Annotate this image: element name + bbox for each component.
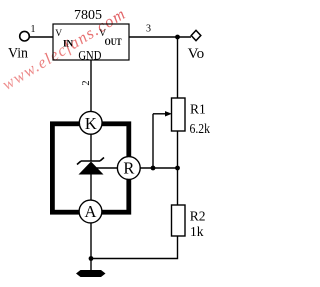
regulator U1 7805 box	[53, 24, 129, 60]
svg-text:6.2k: 6.2k	[190, 121, 211, 136]
svg-text:Vin: Vin	[8, 46, 29, 62]
svg-text:3: 3	[146, 24, 151, 35]
wire output node down to R1	[177, 37, 179, 98]
input terminal circle	[20, 31, 30, 41]
wire GND pin 2	[90, 60, 92, 113]
wire wiper arrow	[153, 113, 166, 115]
wire input terminal to regulator	[29, 36, 53, 38]
TL431 thick box	[52, 124, 128, 212]
svg-text:2: 2	[81, 81, 92, 86]
svg-text:R: R	[123, 158, 134, 177]
wire reference pin to R circle	[91, 167, 118, 169]
resistor R1	[172, 98, 186, 131]
node ground junction	[89, 256, 94, 261]
wire A to ground node	[90, 222, 92, 270]
svg-text:OUT: OUT	[105, 38, 123, 48]
svg-text:K: K	[85, 114, 97, 133]
output terminal diamond	[191, 30, 201, 40]
wire R2 bottom to ground rail	[91, 236, 178, 259]
terminal A circle	[79, 200, 102, 223]
node output junction	[175, 35, 180, 40]
svg-text:GND: GND	[78, 48, 101, 62]
svg-text:A: A	[85, 202, 97, 221]
wire regulator output to Vo terminal	[129, 36, 191, 38]
wire R node horizontal	[139, 167, 178, 169]
wire node to R2 top	[177, 168, 179, 205]
node R1 R2 junction	[175, 166, 180, 171]
wire zener to A	[90, 174, 92, 201]
svg-text:R2: R2	[190, 209, 206, 224]
wire K to zener	[90, 133, 92, 161]
zener left tick	[77, 161, 81, 165]
wire wiper loop vertical	[152, 114, 154, 168]
svg-text:V: V	[55, 29, 62, 39]
resistor R2	[172, 205, 186, 236]
svg-text:1: 1	[31, 24, 36, 35]
zener cathode bar	[81, 160, 100, 162]
terminal K circle	[79, 111, 102, 134]
terminal R circle	[117, 157, 140, 180]
ground	[76, 270, 106, 277]
svg-text:R1: R1	[190, 102, 206, 117]
zener triangle	[79, 162, 104, 175]
svg-text:1k: 1k	[190, 224, 204, 239]
node wiper junction	[151, 166, 156, 171]
zener right tick	[100, 158, 104, 162]
svg-text:Vo: Vo	[188, 46, 205, 62]
wire R1 bottom to node	[177, 131, 179, 168]
